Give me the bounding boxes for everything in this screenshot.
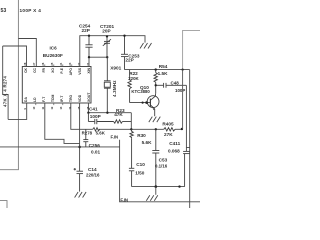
capacitor C256	[83, 129, 88, 147]
trimmer CT201	[103, 37, 111, 58]
svg-text:LD: LD	[33, 97, 37, 102]
node R405 right	[181, 128, 183, 130]
svg-text:0.01: 0.01	[91, 149, 101, 154]
crystal X901	[104, 57, 111, 112]
svg-text:5.6K: 5.6K	[142, 140, 153, 145]
svg-text:220K: 220K	[128, 76, 139, 81]
svg-text:100P: 100P	[90, 114, 101, 119]
capacitor C41	[88, 113, 113, 125]
Q10 emitter arrow	[153, 108, 155, 110]
svg-text:XOUT: XOUT	[87, 92, 91, 102]
svg-text:C53: C53	[159, 157, 168, 162]
VDD long rail	[0, 146, 120, 148]
resistor R30	[130, 129, 133, 168]
transistor Q10	[147, 94, 159, 117]
svg-text:F-T: F-T	[42, 96, 46, 102]
svg-text:C10: C10	[136, 162, 145, 167]
wire ground lead bottom	[155, 187, 157, 195]
wire dark overlay right	[182, 70, 184, 129]
ground near C253	[140, 43, 152, 49]
resistor R54	[154, 70, 157, 94]
svg-text:F.IN: F.IN	[120, 197, 128, 202]
Q10 base wire	[130, 102, 151, 104]
svg-text:VSS: VSS	[78, 67, 82, 75]
node XOUT	[87, 112, 89, 114]
capacitor C10	[129, 168, 134, 186]
ground C14	[75, 192, 87, 198]
IC U6 box	[22, 67, 91, 104]
capacitor C411	[183, 151, 190, 186]
boundary top-right	[183, 30, 200, 69]
IC top pin labels	[24, 67, 91, 75]
svg-text:20P: 20P	[102, 28, 110, 33]
wire xin node to crystal	[89, 56, 107, 58]
wire pin2 top to left boundary	[18, 39, 36, 67]
long wire y129.3	[71, 103, 182, 129]
IC pin numbers top	[23, 62, 90, 65]
svg-text:R30: R30	[137, 133, 146, 138]
wire XIN	[88, 57, 90, 66]
svg-text:KTC3880: KTC3880	[131, 89, 150, 94]
node VDD	[78, 146, 81, 149]
wire R274 left leg	[3, 46, 8, 119]
node C254 top	[88, 35, 90, 37]
node C48 left	[155, 84, 157, 86]
svg-text:C411: C411	[169, 141, 180, 146]
svg-text:47K: 47K	[114, 112, 123, 117]
svg-text:CC: CC	[33, 67, 37, 72]
resistor R22	[128, 70, 131, 103]
svg-text:5.6K: 5.6K	[96, 131, 106, 136]
wire VSS pin to top rail	[80, 36, 145, 67]
capacitor C48	[156, 83, 187, 88]
VDD wire down	[79, 103, 81, 171]
capacitor C253	[121, 36, 128, 70]
svg-text:XIN: XIN	[87, 67, 91, 73]
svg-text:R405: R405	[162, 121, 174, 126]
svg-text:0.1/16: 0.1/16	[155, 163, 168, 168]
svg-text:IC6: IC6	[50, 45, 58, 50]
svg-text:P-E: P-E	[60, 67, 64, 73]
svg-text:220/16: 220/16	[86, 172, 100, 177]
resistor R278	[93, 128, 100, 131]
svg-text:DA: DA	[24, 97, 28, 102]
svg-text:IP-T: IP-T	[60, 95, 64, 102]
wire pin1 bottom to R274	[8, 103, 27, 119]
svg-text:0.068: 0.068	[168, 148, 180, 153]
wire bias rail y69.6	[125, 69, 190, 71]
node base 2	[142, 102, 144, 104]
wire xout horizontal	[88, 112, 131, 114]
F.IN net	[120, 140, 200, 202]
IC bottom pin labels	[24, 92, 91, 102]
IC pin stubs bottom	[36, 103, 63, 105]
svg-text:1/50: 1/50	[135, 171, 145, 176]
node base	[145, 101, 148, 104]
svg-text:100P X 4: 100P X 4	[20, 8, 42, 13]
svg-text:TRO: TRO	[69, 94, 73, 102]
svg-text:100P: 100P	[175, 88, 185, 93]
bottom node wire	[132, 186, 185, 188]
svg-text:22P: 22P	[125, 58, 133, 63]
node crystal bottom	[106, 112, 108, 114]
node R30 top	[130, 128, 132, 130]
svg-text:22P: 22P	[82, 28, 90, 33]
svg-text:47K X 4 R274: 47K X 4 R274	[3, 76, 8, 107]
svg-text:VDD: VDD	[78, 94, 82, 102]
node XIN	[88, 56, 90, 58]
capacitor C53	[152, 129, 159, 186]
ground Q10 emitter	[149, 117, 161, 123]
svg-text:C256: C256	[89, 143, 101, 148]
node crystal top	[106, 56, 108, 58]
svg-text:CK: CK	[24, 67, 28, 72]
svg-text:1.5K: 1.5K	[158, 71, 169, 76]
svg-text:R278: R278	[82, 131, 93, 136]
wire right net B vertical	[189, 70, 191, 208]
svg-text:TDM: TDM	[51, 94, 55, 102]
IC pin stubs top	[45, 64, 72, 66]
node rail right	[182, 69, 184, 71]
svg-text:4.3MHz: 4.3MHz	[112, 80, 117, 97]
XOUT net wire	[87, 103, 89, 113]
wire right leg down	[130, 113, 132, 130]
svg-text:BU2630F: BU2630F	[43, 53, 63, 58]
svg-text:C48: C48	[171, 80, 180, 85]
wire C411 tap jog	[186, 148, 189, 152]
boundary line left section	[0, 0, 18, 170]
IC pin numbers bottom	[23, 106, 90, 109]
resistor R23	[114, 120, 132, 123]
svg-text:XO: XO	[51, 68, 55, 73]
svg-text:APO: APO	[69, 68, 73, 76]
node CT201 top	[106, 35, 108, 37]
resistor R405	[164, 128, 175, 131]
node C53 bottom	[155, 185, 158, 188]
svg-text:X901: X901	[110, 66, 121, 71]
wire C48 net down	[185, 85, 187, 147]
svg-text:27K: 27K	[164, 132, 173, 137]
svg-text:FR: FR	[42, 67, 46, 72]
svg-text:R54: R54	[159, 64, 168, 69]
wire pin3 bottom step	[45, 103, 80, 143]
boundary corner bottom-left	[0, 201, 7, 208]
svg-text:53: 53	[1, 8, 7, 14]
svg-text:C41: C41	[89, 107, 98, 112]
node R54 top	[155, 68, 157, 70]
ground bottom	[146, 195, 158, 201]
capacitor C14 electrolytic	[74, 168, 83, 192]
wire pin1 top to R274	[3, 46, 27, 67]
capacitor C254	[85, 36, 92, 58]
node C53 top	[155, 128, 157, 130]
node C253 top	[123, 35, 125, 37]
svg-text:F.IN: F.IN	[111, 135, 119, 140]
node C411 branch	[178, 185, 180, 187]
